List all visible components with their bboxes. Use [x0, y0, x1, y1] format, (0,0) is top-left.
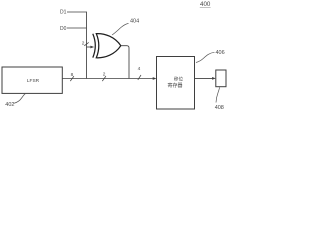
bus width slash 8: [70, 72, 74, 81]
svg-text:408: 408: [215, 105, 224, 111]
svg-text:D1: D1: [60, 10, 67, 16]
wire vertical data bus down to LFSR bus: [86, 12, 88, 79]
figure label 400: [200, 1, 211, 8]
label 406 with leader: [196, 50, 225, 63]
label 404 with leader: [112, 19, 139, 35]
wire D0 input: [67, 27, 87, 29]
bus width slash 4: [138, 66, 141, 80]
wire into XOR gate input with arrowhead: [87, 46, 95, 49]
svg-text:402: 402: [5, 102, 14, 108]
wire D1 input: [67, 11, 87, 13]
svg-text:406: 406: [216, 50, 225, 56]
xor-gate 404: [93, 34, 121, 58]
svg-text:2: 2: [103, 71, 106, 77]
svg-text:8: 8: [71, 72, 74, 78]
svg-text:D0: D0: [60, 26, 67, 32]
svg-text:2: 2: [82, 40, 85, 46]
svg-text:寄存器: 寄存器: [167, 82, 182, 89]
label 402 with leader: [5, 94, 25, 108]
block 406 shift register: [157, 57, 195, 110]
block 408 output: [216, 70, 226, 87]
svg-text:LFSR: LFSR: [27, 78, 40, 84]
bus width slash 2 on vertical wire: [82, 40, 89, 46]
wire XOR output down to bus: [121, 46, 129, 79]
block LFSR 402: [2, 67, 62, 93]
label 408 with leader: [215, 87, 224, 111]
wire 406 to 408 with arrowhead: [195, 77, 216, 80]
svg-text:400: 400: [200, 1, 211, 8]
wire LFSR output bus to block 406 with arrowhead: [62, 77, 156, 80]
svg-text:4: 4: [138, 66, 141, 72]
bus width slash 2: [102, 71, 106, 81]
svg-text:移位: 移位: [174, 76, 184, 83]
svg-text:404: 404: [130, 19, 139, 25]
